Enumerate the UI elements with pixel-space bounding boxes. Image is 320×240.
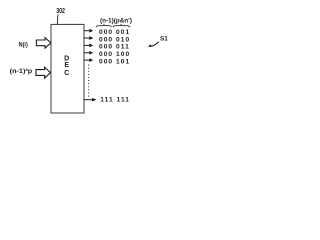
output arrow row 1 — [84, 30, 91, 32]
output arrow row 2 — [84, 37, 91, 39]
svg-text:(n-1)²p: (n-1)²p — [10, 68, 33, 75]
svg-text:C: C — [64, 70, 69, 77]
overbrace group 2 — [113, 25, 130, 27]
svg-text:302: 302 — [56, 6, 65, 15]
output arrow row 5 — [84, 59, 91, 61]
input block-arrow 2 — [36, 67, 51, 78]
svg-text:N(i): N(i) — [19, 41, 28, 48]
svg-text:000 001: 000 001 — [99, 29, 130, 36]
output arrow row last — [84, 99, 93, 101]
ellipsis dotted line — [88, 65, 90, 98]
leader line from 302 to block — [56, 15, 59, 25]
overbrace group 1 — [96, 25, 111, 27]
svg-text:000 010: 000 010 — [99, 36, 130, 43]
svg-text:000 011: 000 011 — [99, 44, 130, 51]
svg-text:E: E — [64, 62, 69, 69]
svg-text:000 101: 000 101 — [99, 58, 130, 65]
input block-arrow 1 — [36, 38, 51, 49]
svg-text:S1: S1 — [160, 35, 168, 42]
leader curve to S1 — [150, 42, 159, 47]
output arrow row 4 — [84, 52, 91, 54]
svg-text:111 111: 111 111 — [100, 97, 130, 104]
decoder block U302 — [51, 24, 84, 113]
svg-text:(n-1)(p&n’): (n-1)(p&n’) — [100, 17, 132, 24]
svg-text:000 100: 000 100 — [99, 51, 130, 58]
output arrow row 3 — [84, 44, 91, 46]
